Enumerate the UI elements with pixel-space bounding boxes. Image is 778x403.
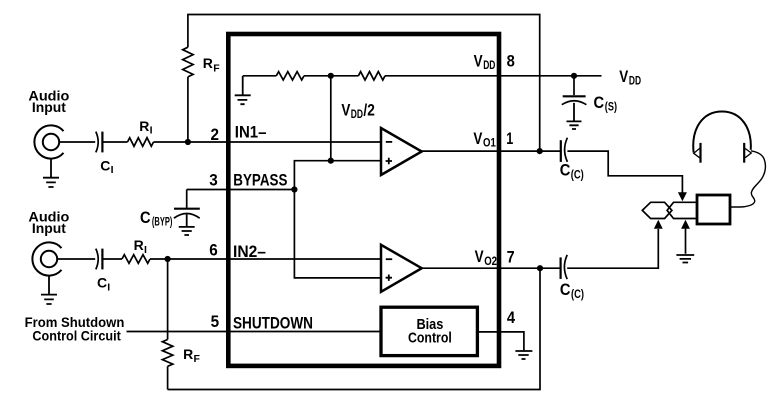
svg-text:C: C xyxy=(97,275,107,291)
svg-text:SHUTDOWN: SHUTDOWN xyxy=(233,315,313,333)
svg-text:6: 6 xyxy=(209,241,218,259)
svg-text:8: 8 xyxy=(507,53,515,71)
svg-text:IN1–: IN1– xyxy=(235,124,267,142)
headphone left earpiece xyxy=(699,143,701,163)
headphone jack plug body xyxy=(697,195,730,224)
svg-text:V: V xyxy=(475,248,484,266)
wire Bias Control to pin 4 ground xyxy=(478,332,524,351)
resistor RF1 xyxy=(183,47,193,77)
resistor RI1 xyxy=(128,138,154,147)
capacitor CI1 xyxy=(96,132,98,153)
ground RCA J1 xyxy=(43,159,59,187)
svg-text:C: C xyxy=(560,281,571,299)
wire BYPASS pin 3 xyxy=(187,189,295,191)
svg-text:4: 4 xyxy=(507,309,516,327)
node IN2/RF junction xyxy=(165,256,171,262)
IC U1 package outline xyxy=(228,34,499,366)
svg-text:F: F xyxy=(213,62,220,74)
svg-text:R: R xyxy=(139,118,149,134)
svg-text:I: I xyxy=(150,125,153,137)
wire RF2 to bottom feedback wire xyxy=(167,366,169,389)
svg-text:V: V xyxy=(619,68,628,86)
svg-text:R: R xyxy=(183,346,193,362)
wire J2 to CI2 xyxy=(57,258,95,260)
wire CC2 to jack ring arrow xyxy=(567,229,658,268)
node VO2 junction xyxy=(537,265,543,271)
wire BYPASS down to U1B + input xyxy=(294,190,381,278)
capacitor CC2 xyxy=(559,257,561,279)
svg-text:C: C xyxy=(594,94,605,112)
wire node to R2 xyxy=(331,75,359,77)
op-amp U1A xyxy=(381,128,422,175)
node VDD/CS junction xyxy=(571,73,577,79)
svg-text:5: 5 xyxy=(211,313,220,331)
ground CBYP xyxy=(179,215,195,236)
headphone jack plug tip xyxy=(642,202,672,218)
svg-text:Control: Control xyxy=(408,330,452,347)
svg-text:I: I xyxy=(111,164,114,176)
svg-text:R: R xyxy=(134,237,144,253)
node VDD/2 divider xyxy=(328,73,334,79)
ground jack sleeve xyxy=(676,255,694,263)
capacitor CBYP xyxy=(174,208,200,210)
node VO1 junction xyxy=(537,148,543,154)
wire J1 to CI1 xyxy=(59,141,95,143)
capacitor CS xyxy=(563,95,586,97)
wire BYPASS up to VDD/2 node xyxy=(294,161,330,190)
resistor RF2 xyxy=(162,340,172,367)
svg-text:I: I xyxy=(107,281,110,293)
wire U1A output to VO1 node and CC1 xyxy=(422,150,561,152)
capacitor CI2 xyxy=(96,249,98,270)
wire RI2 to U1B inverting input (pin 6 IN2-) xyxy=(150,258,381,260)
resistor RI2 xyxy=(122,255,150,264)
arrow to jack sleeve contact xyxy=(681,220,690,229)
headphone cable xyxy=(731,151,766,207)
svg-text:I: I xyxy=(144,244,147,256)
op-amp U1B xyxy=(381,245,422,292)
wire IN2 node down through shutdown to RF2 xyxy=(167,259,169,340)
ground RCA J2 xyxy=(41,276,57,304)
headphone jack plug sleeve shaft xyxy=(667,202,697,218)
svg-text:R: R xyxy=(203,55,213,71)
svg-text:DD: DD xyxy=(351,109,363,121)
svg-text:(BYP): (BYP) xyxy=(152,217,173,229)
arrow to jack tip contact xyxy=(678,192,687,201)
wire VDD/2 node down to op-amp non-inverting xyxy=(330,76,332,161)
svg-text:Input: Input xyxy=(32,99,66,115)
svg-text:C: C xyxy=(560,161,571,179)
capacitor CC1 xyxy=(560,140,562,162)
wire CI1 to RI1 xyxy=(102,141,127,143)
ground pin 4 xyxy=(515,351,532,359)
svg-text:Control Circuit: Control Circuit xyxy=(32,327,121,343)
svg-text:(C): (C) xyxy=(571,169,584,181)
svg-text:BYPASS: BYPASS xyxy=(233,172,287,190)
svg-text:3: 3 xyxy=(209,172,218,190)
svg-text:1: 1 xyxy=(506,130,513,148)
node BYPASS junction xyxy=(291,186,297,192)
capacitor CS stem from VDD node xyxy=(573,76,575,95)
node U1A + input xyxy=(328,158,334,164)
svg-text:2: 2 xyxy=(211,126,220,144)
wire ground to R divider 1 xyxy=(243,75,277,77)
headphone right earpiece xyxy=(743,143,745,163)
svg-text:IN2–: IN2– xyxy=(233,243,266,261)
headphone headband xyxy=(693,112,751,153)
wire to U1A + input xyxy=(331,160,381,162)
wire RF1 lower lead to IN1 node xyxy=(187,77,189,142)
RCA jack J1 xyxy=(34,125,63,158)
ground CS xyxy=(567,103,582,129)
Bias Control block xyxy=(381,307,477,355)
svg-text:C: C xyxy=(100,157,110,173)
wire CI2 to RI2 xyxy=(102,258,122,260)
wire R2 to VDD pin 8 and external VDD xyxy=(385,75,602,77)
wire U1B output to VO2 node and CC2 xyxy=(422,267,561,269)
wire to VDD/2 node xyxy=(304,75,331,77)
resistor divider R1 internal xyxy=(276,72,304,80)
wire CC1 to jack tip arrow xyxy=(567,151,682,193)
svg-text:V: V xyxy=(474,52,483,70)
svg-text:F: F xyxy=(194,353,201,365)
svg-text:(S): (S) xyxy=(605,102,617,114)
svg-text:V: V xyxy=(341,102,350,120)
wire CBYP stem xyxy=(186,190,188,208)
arrow to jack ring contact xyxy=(654,220,663,229)
wire shutdown control to pin 5 xyxy=(127,331,382,333)
svg-text:DD: DD xyxy=(629,75,641,87)
svg-text:C: C xyxy=(140,209,151,227)
svg-text:DD: DD xyxy=(483,60,495,72)
svg-text:Input: Input xyxy=(32,220,66,236)
svg-text:V: V xyxy=(473,130,482,148)
wire sleeve ground stem xyxy=(685,229,687,254)
wire top feedback RF1 to VO1 node xyxy=(188,15,540,152)
svg-text:(C): (C) xyxy=(571,289,584,301)
wire RI1 to op-amp U1A inverting input (pin 2 IN1-) xyxy=(154,141,382,143)
RCA jack J2 xyxy=(32,242,61,275)
internal ground divider xyxy=(235,76,251,104)
svg-text:O2: O2 xyxy=(484,256,497,268)
wire bottom feedback to VO2 node xyxy=(168,268,540,389)
svg-text:7: 7 xyxy=(507,249,515,267)
svg-text:/2: /2 xyxy=(363,102,374,120)
svg-text:O1: O1 xyxy=(483,137,496,149)
node IN1/RF junction xyxy=(185,139,191,145)
resistor divider R2 internal xyxy=(358,72,385,80)
